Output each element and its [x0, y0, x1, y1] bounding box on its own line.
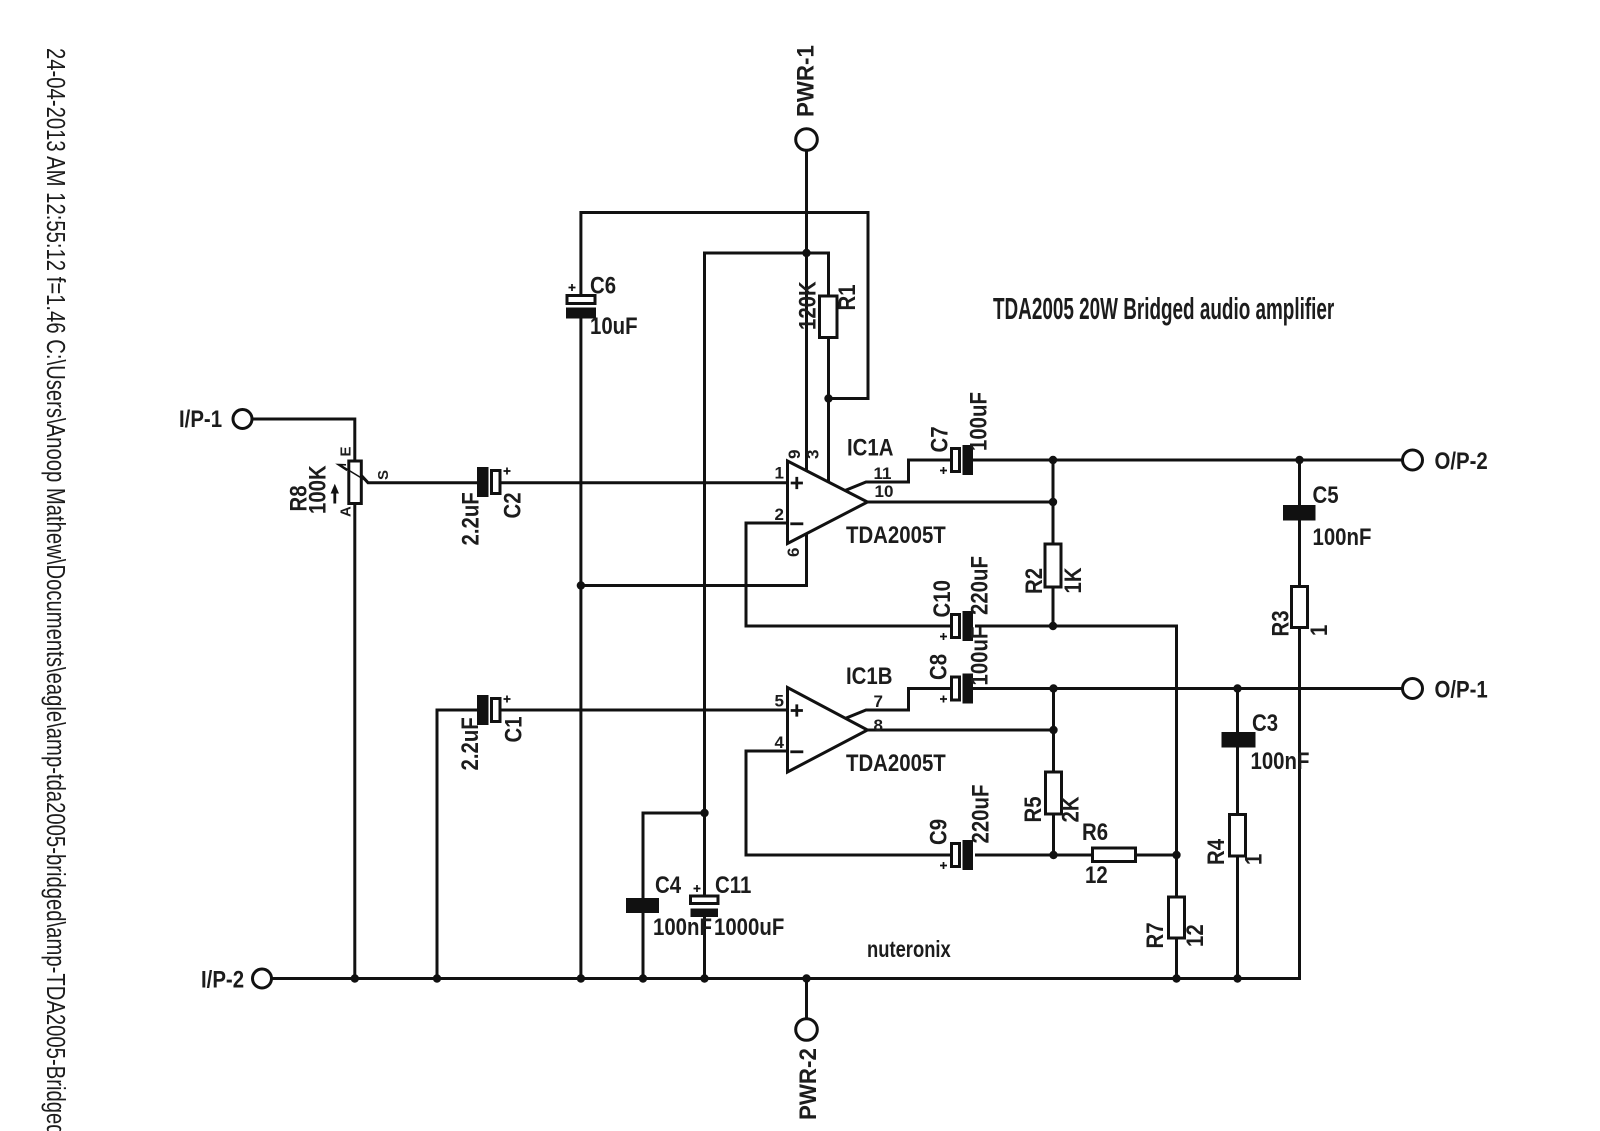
plot margin filename/date text — [41, 48, 70, 1131]
svg-text:C2: C2 — [499, 492, 526, 518]
node junction pin6/C6 column — [577, 581, 585, 589]
svg-text:C6: C6 — [590, 272, 616, 299]
capacitor C7 — [926, 392, 992, 475]
wire C5 to R3 — [1298, 520, 1301, 587]
wire PWR-1 to pin 9 — [805, 150, 808, 471]
svg-text:R2: R2 — [1020, 568, 1047, 594]
wire R1 bottom lead to pin 3 — [827, 337, 830, 482]
wire R1 bottom to loop — [829, 397, 869, 400]
wire R5 bottom lead — [1052, 814, 1055, 855]
svg-text:R1: R1 — [833, 284, 860, 310]
wire pot wiper to C2 — [362, 477, 477, 483]
wire R2 column top — [1052, 460, 1055, 544]
node junction R7 ground — [1172, 974, 1180, 982]
wire C8 to O/P-1 — [973, 687, 1404, 690]
svg-text:C4: C4 — [655, 871, 682, 898]
svg-text:9: 9 — [785, 450, 804, 459]
svg-text:C11: C11 — [715, 871, 751, 898]
wire supply branch horizontal — [705, 252, 829, 255]
svg-text:I/P-1: I/P-1 — [179, 405, 222, 432]
svg-text:C5: C5 — [1313, 481, 1339, 508]
node junction R2 bottom/C10 — [1049, 622, 1057, 630]
resistor R3 — [1267, 587, 1332, 637]
svg-text:R7: R7 — [1141, 922, 1168, 948]
svg-text:R4: R4 — [1202, 838, 1229, 865]
wire C7 to O/P-2 — [973, 459, 1404, 462]
svg-text:8: 8 — [874, 716, 883, 735]
terminal O/P-2 — [1403, 447, 1488, 474]
wire pin 6 to C6 column — [581, 534, 807, 586]
wire I/P-1 to pot — [252, 419, 355, 461]
svg-text:2.2uF: 2.2uF — [457, 492, 484, 545]
svg-text:C3: C3 — [1252, 709, 1278, 736]
wire R2 bottom lead — [1052, 587, 1055, 626]
node junction PWR-2 — [802, 974, 810, 982]
wire C10 to R6 column — [977, 625, 1177, 628]
svg-text:1: 1 — [1305, 625, 1332, 636]
wire pin 11 to C7 — [845, 460, 952, 491]
svg-text:2: 2 — [775, 505, 784, 524]
svg-text:100nF: 100nF — [653, 913, 712, 940]
svg-text:PWR-2: PWR-2 — [794, 1048, 821, 1120]
svg-text:100uF: 100uF — [965, 392, 992, 451]
wire R1 top lead — [827, 253, 830, 297]
svg-text:12: 12 — [1181, 924, 1208, 947]
wire top loop right vertical — [867, 213, 870, 399]
terminal I/P-2 — [201, 966, 272, 993]
wire C1 to pin 5 — [500, 709, 788, 712]
svg-text:C7: C7 — [926, 426, 953, 452]
svg-text:C10: C10 — [928, 580, 955, 617]
wire C6 bottom to bottom rail — [579, 318, 582, 979]
wire top loop horizontal — [581, 211, 868, 214]
svg-text:IC1B: IC1B — [846, 662, 892, 689]
svg-text:100K: 100K — [304, 465, 331, 514]
capacitor C2 — [457, 467, 526, 546]
svg-text:C1: C1 — [500, 716, 527, 742]
svg-text:24-04-2013 AM 12:55:12 f=1.46: 24-04-2013 AM 12:55:12 f=1.46 C:\Users\A… — [41, 48, 70, 1131]
wire R3 bottom to bottom rail — [1298, 628, 1301, 979]
wire R4 bottom lead — [1236, 856, 1239, 979]
wire C4 bottom lead — [642, 912, 645, 979]
potentiometer R8 — [285, 446, 392, 517]
svg-text:O/P-1: O/P-1 — [1435, 676, 1488, 703]
resistor R4 — [1202, 815, 1266, 866]
resistor R2 — [1020, 544, 1086, 594]
node junction PWR branch — [802, 249, 810, 257]
svg-text:220uF: 220uF — [966, 556, 993, 615]
wire C3 top lead — [1236, 689, 1239, 733]
wire R7 bottom lead — [1175, 938, 1178, 979]
node junction pin10/R2 — [1049, 498, 1057, 506]
wire C2 to pin 1 — [500, 481, 788, 484]
node junction C4 ground — [639, 974, 647, 982]
wire PWR-2 lead — [805, 979, 808, 1020]
svg-text:2K: 2K — [1057, 796, 1084, 822]
resistor R1 — [794, 281, 860, 337]
wire pin 7 to C8 — [845, 689, 952, 719]
capacitor C6 — [566, 272, 638, 339]
svg-text:1K: 1K — [1059, 567, 1086, 593]
node junction R1 bottom — [824, 394, 832, 402]
svg-text:4: 4 — [775, 733, 785, 752]
node junction R5 bottom/C9 — [1049, 851, 1057, 859]
svg-text:C9: C9 — [925, 819, 952, 845]
svg-text:7: 7 — [874, 692, 883, 711]
svg-text:1: 1 — [1240, 854, 1267, 865]
node junction pot ground — [351, 974, 359, 982]
svg-text:10: 10 — [875, 482, 894, 501]
wire C4 top lead — [642, 813, 645, 899]
resistor R5 — [1019, 772, 1083, 823]
resistor R6 — [1082, 818, 1136, 888]
svg-text:R5: R5 — [1019, 796, 1046, 822]
svg-text:PWR-1: PWR-1 — [792, 45, 819, 117]
svg-text:S: S — [375, 470, 392, 480]
svg-text:100nF: 100nF — [1251, 747, 1310, 774]
wire C3 to R4 — [1236, 747, 1239, 815]
wire bottom rail — [272, 977, 1300, 980]
wire pin 4 stub to feedback — [746, 751, 952, 855]
resistor R7 — [1141, 897, 1208, 949]
wire C10 column down to R7 — [1175, 626, 1178, 897]
svg-text:100uF: 100uF — [966, 627, 993, 686]
svg-text:I/P-2: I/P-2 — [201, 966, 244, 993]
node junction output O/P-2 top — [1049, 456, 1057, 464]
terminal PWR-1 — [792, 45, 819, 150]
terminal O/P-1 — [1403, 676, 1488, 703]
wire C1 left leg — [437, 709, 478, 712]
node junction C4 tap — [700, 809, 708, 817]
capacitor C11 — [691, 871, 785, 940]
wire pin 8 output — [868, 729, 1054, 732]
svg-text:220uF: 220uF — [967, 785, 994, 844]
wire pin 2 stub to feedback — [746, 523, 952, 626]
svg-text:1000uF: 1000uF — [714, 913, 784, 940]
node junction R6/R7 — [1172, 851, 1180, 859]
capacitor C10 — [928, 556, 992, 641]
svg-text:IC1A: IC1A — [847, 434, 893, 461]
svg-text:10uF: 10uF — [590, 312, 638, 339]
node junction C1 ground — [433, 974, 441, 982]
capacitor C1 — [456, 695, 526, 771]
capacitor C3 — [1222, 709, 1310, 774]
wire R6 to R7 column — [1136, 854, 1177, 857]
node junction pin8/R5 — [1049, 726, 1057, 734]
op-amp IC1B — [775, 662, 947, 776]
svg-text:nuteronix: nuteronix — [867, 937, 951, 962]
capacitor C5 — [1283, 481, 1371, 550]
wire C5 top lead — [1298, 460, 1301, 506]
wire C1 left leg vertical — [436, 710, 439, 979]
node junction C6 ground — [577, 974, 585, 982]
capacitor C9 — [925, 785, 994, 870]
wire C4 tap horizontal — [643, 812, 705, 815]
node junction output O/P-1 top — [1049, 684, 1057, 692]
svg-text:TDA2005T: TDA2005T — [846, 749, 946, 776]
svg-text:C8: C8 — [925, 654, 952, 680]
svg-text:5: 5 — [775, 692, 784, 711]
svg-text:2.2uF: 2.2uF — [456, 717, 483, 770]
svg-text:6: 6 — [784, 548, 803, 557]
svg-text:1: 1 — [775, 464, 784, 483]
capacitor C8 — [925, 627, 993, 704]
node junction R4 ground — [1233, 974, 1241, 982]
svg-text:R6: R6 — [1082, 818, 1108, 845]
svg-text:A: A — [338, 506, 355, 517]
op-amp IC1A — [775, 434, 947, 557]
svg-text:100nF: 100nF — [1313, 523, 1372, 550]
svg-text:R3: R3 — [1267, 610, 1294, 636]
wire pot bottom to bottom rail — [353, 504, 356, 979]
wire C9 to R6 — [977, 854, 1093, 857]
brand text nuteronix — [867, 937, 951, 962]
svg-text:E: E — [338, 446, 355, 456]
node junction C5 top — [1295, 456, 1303, 464]
node junction C11 ground — [700, 974, 708, 982]
wire long vertical C6 column — [579, 213, 582, 296]
svg-text:11: 11 — [874, 464, 892, 483]
wire R5 column top — [1052, 689, 1055, 773]
wire pin 10 output — [868, 501, 1054, 504]
wire long vertical column to C11 — [703, 253, 706, 896]
node junction C3 top — [1233, 684, 1241, 692]
svg-text:O/P-2: O/P-2 — [1435, 447, 1488, 474]
wire C11 bottom lead — [703, 916, 706, 979]
svg-text:12: 12 — [1085, 861, 1108, 888]
schematic title text — [993, 292, 1334, 326]
capacitor C4 — [626, 871, 712, 940]
svg-text:TDA2005T: TDA2005T — [846, 521, 946, 548]
terminal PWR-2 — [794, 1019, 821, 1120]
svg-text:TDA2005 20W Bridged audio ampl: TDA2005 20W Bridged audio amplifier — [993, 292, 1334, 326]
svg-text:120K: 120K — [794, 281, 821, 330]
terminal I/P-1 — [179, 405, 252, 432]
svg-text:3: 3 — [804, 450, 823, 459]
